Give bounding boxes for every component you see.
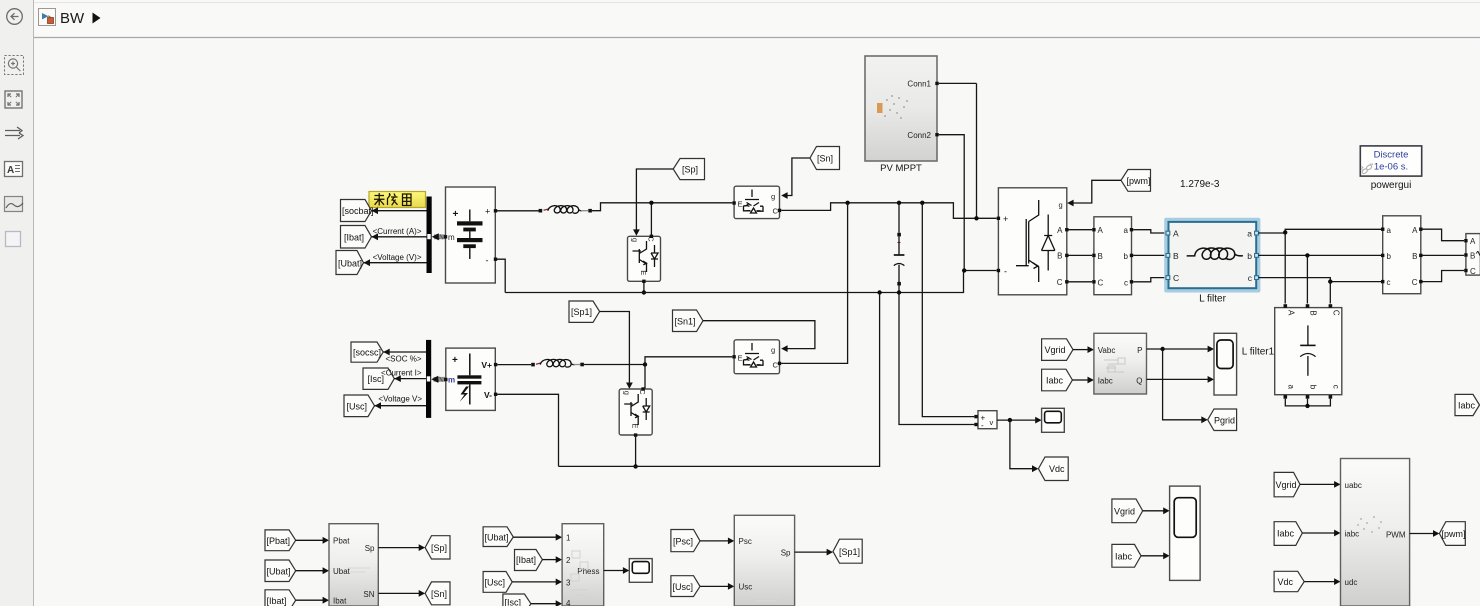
svg-text:a: a — [1124, 226, 1129, 235]
wire meter1 a to Lfilter A — [1133, 230, 1166, 233]
wire phase a down to cap bank — [1284, 232, 1286, 303]
svg-text:Iabc: Iabc — [1046, 376, 1064, 386]
svg-text:Vgrid: Vgrid — [1276, 480, 1297, 490]
From tag Iabc PQ — [1042, 369, 1073, 391]
svg-text:2: 2 — [566, 556, 571, 565]
From tag [Usc] sc — [671, 576, 700, 597]
wire inverter B to meter1 — [1069, 254, 1093, 256]
wire grid controller PWM out — [1410, 530, 1440, 537]
wire Pbat to controller — [296, 537, 329, 544]
svg-text:A: A — [1057, 226, 1063, 235]
svg-text:+: + — [452, 355, 458, 366]
wire Sn1 to Q4 gate — [703, 321, 815, 352]
From tag [Ibat] phess — [515, 550, 543, 571]
IGBT Q2 upper — [732, 186, 781, 218]
svg-text:b: b — [1387, 252, 1392, 261]
From tag [Usc] phess — [483, 572, 512, 593]
svg-text:PV MPPT: PV MPPT — [880, 163, 922, 174]
svg-text:g: g — [771, 192, 775, 201]
IGBT Q3 — [619, 387, 652, 437]
node positive rail junction vmeas — [920, 201, 924, 205]
wire bus to socbat — [372, 207, 427, 214]
svg-text:P: P — [1137, 346, 1142, 355]
wire controller Sp out — [378, 544, 425, 551]
sidebar icon signal arrows — [5, 127, 23, 139]
svg-text:[Sp1]: [Sp1] — [839, 547, 860, 557]
three-phase source grid — [1464, 234, 1480, 276]
top toolbar background — [34, 0, 1480, 37]
svg-text:1.279e-3: 1.279e-3 — [1180, 179, 1220, 190]
svg-text:iabc: iabc — [1345, 530, 1360, 539]
svg-text:Pgrid: Pgrid — [1214, 415, 1235, 425]
wire inverter A to meter1 — [1069, 229, 1093, 231]
From tag [Ibat] bottom — [265, 590, 296, 606]
wire meter2 A to source — [1423, 229, 1465, 241]
wire phase c down to cap bank — [1329, 282, 1331, 304]
node negative rail junction cap — [897, 290, 901, 294]
svg-text:Sp: Sp — [365, 544, 375, 553]
Goto tag [pwm] out — [1439, 522, 1465, 546]
svg-text:udc: udc — [1345, 578, 1358, 587]
svg-text:a: a — [1387, 226, 1392, 235]
svg-text:C: C — [1098, 278, 1104, 287]
From tag Vdc ctrl — [1274, 571, 1304, 591]
svg-text:+: + — [453, 209, 459, 220]
svg-text:Discrete: Discrete — [1374, 150, 1409, 161]
subsystem PV MPPT — [865, 56, 939, 161]
svg-text:B: B — [1412, 252, 1417, 261]
svg-text:[pwm]: [pwm] — [1127, 176, 1151, 186]
From tag [Sn] — [810, 147, 840, 170]
svg-text:[Usc]: [Usc] — [673, 582, 694, 592]
node phase c junction — [1328, 279, 1332, 283]
svg-text:V-: V- — [484, 390, 492, 400]
Goto tag [Sn] out — [425, 582, 450, 605]
wire Q1 emitter to negative rail — [643, 283, 645, 293]
svg-text:Conn2: Conn2 — [907, 131, 931, 140]
svg-text:[pwm]: [pwm] — [1442, 529, 1466, 539]
capacitor bank L filter1 — [1275, 304, 1342, 399]
voltage measurement Vdc — [974, 411, 997, 430]
svg-text:Iabc: Iabc — [1458, 401, 1476, 411]
wire bus2 to Usc — [375, 402, 427, 409]
wire meter2 B to source — [1423, 254, 1465, 256]
svg-text:v: v — [990, 418, 994, 427]
wire Usc to sc controller — [700, 583, 734, 590]
IGBT Q4 lower — [732, 340, 781, 374]
node positive rail junction riser — [845, 201, 849, 205]
svg-text:<Current (A)>: <Current (A)> — [373, 227, 422, 236]
svg-text:Iabc: Iabc — [1115, 551, 1133, 561]
wire meter1 c to Lfilter C — [1133, 278, 1166, 282]
battery Battery1 — [444, 187, 497, 283]
svg-text:Usc: Usc — [739, 583, 753, 592]
svg-text:Vgrid: Vgrid — [1114, 506, 1135, 516]
wire phess to scope — [604, 567, 630, 574]
svg-text:[Pbat]: [Pbat] — [267, 536, 291, 546]
svg-text:C: C — [1057, 278, 1063, 287]
From tag Vgrid ctrl — [1274, 472, 1300, 496]
wire Vgrid to scope2 — [1143, 507, 1170, 514]
From tag [Psc] — [671, 530, 700, 552]
svg-text:C: C — [1173, 273, 1179, 283]
sidebar icon annotation — [5, 162, 23, 177]
svg-text:C: C — [773, 361, 779, 370]
wire Ubat to phess 1 — [513, 534, 562, 541]
powergui block — [1360, 146, 1421, 176]
From tag Iabc ctrl — [1274, 522, 1302, 546]
scope phess — [629, 559, 652, 583]
svg-text:Pbat: Pbat — [333, 537, 350, 546]
breadcrumb arrow — [93, 13, 101, 24]
wire meter1 b to Lfilter B — [1133, 254, 1166, 256]
svg-text:a: a — [1247, 229, 1252, 239]
svg-text:<Voltage (V)>: <Voltage (V)> — [373, 253, 422, 262]
wire Vgrid to PQ block — [1073, 346, 1094, 353]
subsystem L filter selected — [1164, 218, 1260, 293]
wire rail2 to negative rail — [559, 293, 880, 467]
From tag [Ubat] phess — [483, 527, 513, 547]
breadcrumb model icon — [39, 9, 56, 26]
node negative wire junction Conn2 — [962, 268, 966, 272]
svg-text:E: E — [738, 200, 743, 209]
svg-text:powergui: powergui — [1371, 180, 1412, 191]
wire PV Conn2 to negative rail — [939, 135, 965, 271]
svg-text:c: c — [1124, 278, 1128, 287]
Goto tag Iabc right — [1455, 394, 1480, 415]
scope Vdc — [1042, 408, 1065, 432]
From tag Iabc scope — [1112, 544, 1141, 567]
From tag Vgrid scope — [1112, 499, 1143, 523]
svg-text:b: b — [1309, 385, 1318, 390]
left toolbar background — [0, 0, 33, 606]
svg-text:b: b — [1124, 252, 1129, 261]
wire L2 to midnode2 — [584, 364, 645, 366]
wire midnode2 to Q3 collector — [644, 365, 646, 390]
svg-text:[Isc]: [Isc] — [505, 598, 522, 606]
wire positive rail to vmeas plus — [922, 203, 974, 417]
node negative rail junction conv2 — [877, 290, 881, 294]
svg-text:-: - — [1004, 267, 1007, 277]
node negative rail junction Q1 — [642, 290, 646, 294]
svg-text:A: A — [1470, 237, 1476, 246]
subsystem grid controller — [1341, 459, 1410, 606]
From tag [Sn1] — [673, 310, 704, 332]
svg-text:[socsc]: [socsc] — [353, 347, 381, 357]
sidebar icon fit to view — [5, 91, 22, 108]
svg-text:Vdc: Vdc — [1049, 464, 1065, 474]
Goto tag Pgrid — [1208, 409, 1237, 431]
svg-text:[Ibat]: [Ibat] — [267, 596, 287, 606]
wire Ibat to phess 2 — [542, 556, 562, 563]
svg-text:<Voltage V>: <Voltage V> — [378, 395, 422, 404]
svg-text:c: c — [1387, 278, 1391, 287]
wire meter2 C to source — [1423, 271, 1465, 282]
Goto tag [Sp] out — [425, 536, 450, 559]
wire Lfilter b to meter2 — [1258, 254, 1381, 256]
node phase b junction — [1305, 253, 1309, 257]
svg-text:Ibat: Ibat — [333, 597, 347, 606]
back button icon — [7, 9, 23, 25]
wire P to Pgrid — [1163, 349, 1208, 423]
wire Isc to phess 4 — [531, 600, 562, 606]
svg-text:[Sn]: [Sn] — [431, 589, 447, 599]
svg-text:[Ubat]: [Ubat] — [267, 566, 291, 576]
wire midnode1 to Q1 collector — [650, 203, 652, 236]
svg-text:B: B — [1098, 252, 1103, 261]
svg-text:[socbat]: [socbat] — [342, 206, 374, 216]
svg-text:B: B — [1173, 251, 1179, 261]
bus selector 1 — [427, 197, 432, 274]
svg-text:m: m — [448, 233, 455, 242]
svg-text:<SOC %>: <SOC %> — [385, 354, 421, 363]
node midnode2 junction — [643, 362, 647, 366]
svg-text:-: - — [981, 421, 984, 430]
wire SC plus to L2 — [497, 364, 531, 366]
inductor L2 — [531, 359, 584, 367]
svg-text:A: A — [1173, 229, 1179, 239]
svg-text:SN: SN — [363, 590, 374, 599]
svg-text:A: A — [1286, 310, 1295, 316]
svg-text:a: a — [1286, 384, 1295, 389]
svg-text:B: B — [1309, 310, 1318, 315]
wire negative rail — [505, 271, 996, 293]
svg-text:[Ubat]: [Ubat] — [338, 258, 362, 268]
wire Vdc to grid controller — [1304, 578, 1340, 585]
three-phase VI measurement 2 — [1381, 216, 1423, 294]
wire L1 to midnode1 — [592, 203, 732, 211]
wire vmeas output — [997, 417, 1042, 472]
svg-text:+: + — [485, 207, 490, 217]
annotation note 未使用 — [369, 192, 426, 208]
sidebar icon image — [5, 197, 24, 212]
svg-text:L filter1: L filter1 — [1242, 347, 1275, 358]
wire bus to Ubat — [364, 259, 427, 266]
svg-text:Sp: Sp — [781, 548, 791, 557]
svg-text:BW: BW — [60, 10, 85, 27]
svg-text:[Sn]: [Sn] — [817, 154, 833, 164]
svg-text:g: g — [622, 391, 631, 395]
node rail2 junction Q3 — [633, 464, 637, 468]
svg-text:3: 3 — [566, 578, 571, 587]
From tag [Sp] — [673, 159, 704, 180]
three-phase VI measurement 1 — [1092, 217, 1133, 295]
node positive wire junction Conn1 — [974, 216, 978, 220]
svg-text:L filter: L filter — [1199, 294, 1227, 305]
sidebar icon empty box — [6, 232, 21, 247]
svg-text:c: c — [1332, 385, 1341, 389]
svg-text:[Psc]: [Psc] — [673, 537, 693, 547]
svg-text:A: A — [7, 165, 14, 176]
From tag [pwm] — [1121, 170, 1151, 192]
svg-text:1e-06 s.: 1e-06 s. — [1374, 162, 1408, 173]
wire Sn to Q2 gate — [781, 158, 810, 199]
scope grid — [1170, 486, 1201, 580]
From tag [socsc] — [351, 342, 383, 362]
wire bus2 to socsc — [383, 349, 426, 356]
wire pwm to inverter gate — [1067, 180, 1121, 206]
svg-text:[Ibat]: [Ibat] — [516, 555, 536, 565]
wire Ubat to controller — [296, 567, 329, 574]
subsystem battery charge control — [329, 524, 378, 606]
wire sc controller Sp out — [795, 549, 833, 556]
svg-text:A: A — [1098, 226, 1104, 235]
measurement bus m battery1 — [432, 233, 446, 240]
wire Q2 collector to positive rail — [781, 203, 996, 219]
wire Vgrid to grid controller — [1300, 481, 1341, 488]
svg-text:Vdc: Vdc — [1278, 577, 1294, 587]
svg-text:-: - — [486, 256, 489, 266]
svg-text:4: 4 — [566, 599, 571, 606]
wire controller SN out — [378, 590, 425, 597]
svg-text:Q: Q — [1136, 376, 1142, 385]
wire Sp to Q1 gate — [633, 169, 673, 236]
wire SC minus to rail2 — [497, 394, 558, 466]
wire cap bank star — [1285, 399, 1330, 406]
wire battery1 minus to negative rail — [497, 259, 505, 292]
capacitor C1 — [894, 203, 905, 293]
svg-text:[Usc]: [Usc] — [485, 578, 506, 588]
From tag [Ubat] — [336, 251, 364, 275]
wire midnode2 to Q4 emitter — [645, 357, 732, 365]
svg-text:B: B — [1057, 252, 1062, 261]
From tag [Ibat] — [341, 226, 372, 249]
subsystem supercap control — [734, 515, 794, 606]
svg-text:Psc: Psc — [739, 537, 752, 546]
svg-text:1: 1 — [566, 534, 571, 543]
measurement bus m battery2 — [431, 376, 445, 383]
svg-text:[Sn1]: [Sn1] — [675, 316, 696, 326]
svg-text:m: m — [448, 376, 455, 385]
wire Lfilter c to meter2 — [1258, 278, 1381, 282]
scope PQ — [1214, 333, 1237, 395]
wire Iabc to scope2 — [1141, 552, 1170, 559]
wire phase b down to cap bank — [1306, 255, 1308, 303]
svg-text:Vabc: Vabc — [1098, 346, 1116, 355]
wire PV Conn1 to positive rail — [939, 82, 977, 84]
svg-text:Conn1: Conn1 — [907, 80, 931, 89]
svg-text:Iabc: Iabc — [1098, 376, 1113, 385]
svg-text:<Current I>: <Current I> — [381, 369, 422, 378]
wire Psc to sc controller — [700, 538, 734, 545]
wire bus2 to Isc — [394, 375, 426, 382]
node positive rail junction cap — [897, 201, 901, 205]
svg-text:+: + — [1003, 214, 1008, 224]
node phase a junction — [1283, 230, 1287, 234]
wire Iabc to PQ block — [1072, 377, 1094, 384]
wire battery1 plus to L1 — [497, 210, 539, 212]
Goto tag [Sp1] out — [833, 539, 862, 563]
Goto tag Vdc — [1038, 457, 1068, 481]
From tag [Ubat] bottom — [265, 560, 296, 582]
svg-text:Iabc: Iabc — [1277, 529, 1295, 539]
wire Q3 emitter to rail2 — [635, 437, 637, 467]
wire inverter C to meter1 — [1069, 281, 1093, 283]
From tag [Sp1] — [569, 301, 600, 322]
svg-text:[Sp]: [Sp] — [682, 165, 698, 175]
svg-text:g: g — [1059, 201, 1063, 210]
svg-text:A: A — [1412, 226, 1418, 235]
svg-text:[Sp1]: [Sp1] — [571, 307, 592, 317]
wire PQ Q output — [1147, 376, 1215, 383]
svg-text:C: C — [1332, 310, 1341, 316]
svg-text:b: b — [1247, 251, 1252, 261]
From tag [Pbat] — [265, 530, 296, 551]
wire Usc to phess 3 — [512, 579, 562, 586]
node cap bank star junction — [1305, 404, 1309, 408]
wire Iabc to grid controller — [1302, 530, 1340, 537]
svg-text:B: B — [1470, 251, 1475, 260]
wire Ibat to controller — [296, 597, 329, 604]
svg-text:[Ubat]: [Ubat] — [485, 533, 509, 543]
svg-text:[Sp]: [Sp] — [431, 543, 447, 553]
wire negative rail to vmeas minus — [899, 293, 974, 425]
wire Lfilter a to meter2 — [1258, 229, 1381, 233]
wire Q4 collector to positive rail riser — [781, 203, 847, 364]
From tag [Isc] phess — [503, 594, 531, 606]
svg-text:uabc: uabc — [1345, 481, 1362, 490]
sidebar icon zoom — [5, 56, 24, 75]
From tag [socbat] — [341, 200, 374, 222]
wire Sp1 to Q3 gate — [600, 312, 633, 389]
From tag [Usc] — [344, 395, 375, 417]
svg-text:[Usc]: [Usc] — [347, 401, 368, 411]
svg-text:g: g — [771, 346, 775, 355]
From tag Vgrid PQ — [1042, 339, 1073, 361]
wire bus to Ibat — [372, 233, 427, 240]
subsystem Phess — [562, 524, 604, 606]
svg-text:[Ibat]: [Ibat] — [344, 232, 364, 242]
bus selector 2 — [426, 340, 431, 418]
svg-text:V+: V+ — [481, 360, 492, 370]
svg-text:C: C — [1470, 267, 1476, 276]
node midnode1 junction — [649, 201, 653, 205]
inverter universal bridge — [997, 188, 1069, 295]
wire PQ P output — [1147, 346, 1215, 353]
svg-text:Vgrid: Vgrid — [1045, 345, 1066, 355]
From tag [Isc] — [363, 368, 394, 389]
svg-text:PWM: PWM — [1386, 531, 1406, 540]
inductor L1 — [539, 206, 592, 214]
svg-text:g: g — [631, 238, 640, 242]
svg-text:E: E — [738, 354, 743, 363]
svg-text:C: C — [1412, 278, 1418, 287]
svg-text:C: C — [773, 207, 779, 216]
supercapacitor SC — [444, 348, 497, 410]
IGBT Q1 — [628, 235, 661, 283]
PQ measurement subsystem — [1094, 333, 1147, 394]
